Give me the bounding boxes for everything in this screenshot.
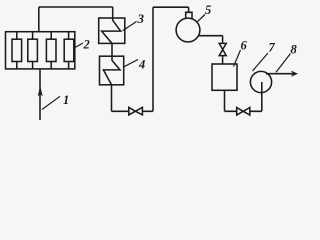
- leader line 8: [276, 54, 291, 73]
- wire stub top a: [16, 32, 18, 40]
- tube 2a: [12, 39, 22, 61]
- wire stub top b: [32, 32, 34, 40]
- svg-text:2: 2: [83, 38, 90, 52]
- wire valve V3 to box 6: [222, 56, 224, 64]
- wire top line right: [153, 6, 189, 8]
- leader line 3: [123, 22, 137, 31]
- svg-text:8: 8: [291, 43, 298, 57]
- leader line 7: [253, 53, 269, 71]
- wire separator outlet: [198, 35, 222, 37]
- wire drop to separator neck: [188, 7, 190, 12]
- wire riser into pump 7: [261, 82, 263, 111]
- wire riser middle: [152, 7, 154, 111]
- leader line 2: [75, 43, 83, 48]
- tube 2c: [46, 39, 56, 61]
- apparatus 6 body: [212, 64, 237, 90]
- valve V2: [237, 108, 250, 116]
- valve V3: [219, 43, 226, 55]
- valve V1: [129, 107, 143, 115]
- svg-text:4: 4: [138, 58, 145, 72]
- wire stub bottom d: [68, 62, 70, 69]
- wire stub top c: [50, 32, 52, 40]
- leader line 6: [234, 50, 241, 67]
- wire top line left: [39, 6, 113, 8]
- wire HE4 down: [111, 85, 113, 112]
- wire box 6 down: [224, 90, 226, 111]
- wire stub bottom a: [16, 62, 18, 69]
- leader line 4: [124, 60, 139, 68]
- vessel battery 2 outer box: [6, 32, 75, 69]
- wire riser to top line: [38, 7, 40, 32]
- svg-text:5: 5: [205, 3, 211, 17]
- heat exchanger 4 body: [100, 56, 124, 85]
- wire bottom line right: [225, 110, 262, 112]
- arrowhead feed 1: [38, 86, 43, 97]
- svg-text:3: 3: [137, 11, 145, 26]
- feed pipe 1: [39, 69, 41, 120]
- heat exchanger 3 coil zigzag: [102, 18, 121, 43]
- wire HE3 to HE4: [111, 43, 113, 56]
- heat exchanger 4 coil zigzag: [103, 56, 120, 85]
- tube 2d: [64, 39, 74, 61]
- leader line 5: [198, 15, 206, 22]
- tube 2b: [28, 39, 38, 61]
- heat exchanger 3 body: [99, 18, 125, 43]
- wire stub bottom b: [32, 62, 34, 69]
- wire drop into HE3: [112, 7, 114, 18]
- pump 7 body: [250, 71, 271, 92]
- separator 5 neck: [186, 12, 192, 19]
- wire stub top d: [68, 32, 70, 40]
- wire bottom line left: [112, 110, 154, 112]
- wire pump outlet 8: [266, 73, 293, 75]
- svg-text:6: 6: [241, 39, 248, 53]
- arrowhead outlet 8: [291, 71, 298, 77]
- wire stub bottom c: [50, 62, 52, 69]
- svg-text:1: 1: [63, 93, 69, 107]
- separator 5 body: [176, 18, 200, 42]
- leader line 1: [42, 96, 60, 109]
- wire drop to valve V3: [222, 36, 224, 44]
- svg-text:7: 7: [269, 41, 276, 55]
